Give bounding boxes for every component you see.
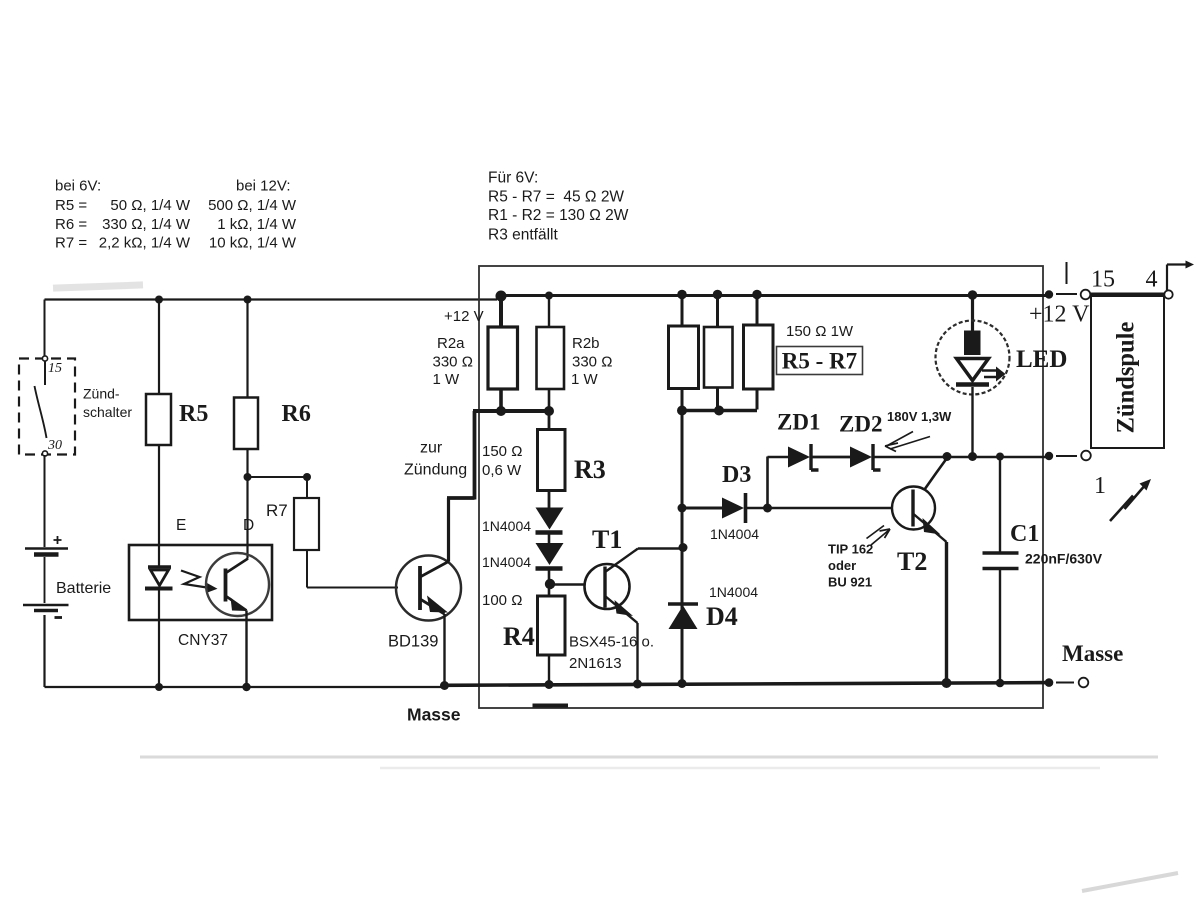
wire R5 to optocoupler LED anode xyxy=(158,445,160,567)
wire R5 branch from top bus xyxy=(158,300,160,395)
wire R6 to node D xyxy=(246,449,248,477)
svg-text:+12 V: +12 V xyxy=(1029,302,1090,328)
node junction A (D2/R4/T1 base) xyxy=(545,579,555,589)
wire D3 cathode to T2 base xyxy=(746,507,893,509)
resistor R3 xyxy=(538,430,566,491)
resistor R5 xyxy=(146,394,171,445)
node junction D-line/ground xyxy=(678,679,687,688)
wire optocoupler LED cathode to ground bus (node E) xyxy=(158,589,160,688)
svg-text:Batterie: Batterie xyxy=(56,580,111,597)
wire bus to R5-R7 bank stubs xyxy=(682,294,757,327)
svg-text:TIP 162: TIP 162 xyxy=(828,542,873,557)
svg-text:R7: R7 xyxy=(266,501,288,520)
resistor R7 xyxy=(294,498,319,550)
node junction T2 collector xyxy=(943,452,952,461)
wire D2 to node A xyxy=(548,570,551,585)
wire node to D3 anode xyxy=(682,507,722,510)
wire T1 collector to node B xyxy=(638,547,683,550)
node junction phototransistor emitter/ground xyxy=(242,683,250,691)
svg-text:1N4004: 1N4004 xyxy=(710,526,759,542)
terminal 4 open circle xyxy=(1164,290,1172,298)
diode D4 1N4004 xyxy=(668,604,698,629)
value label T2 type xyxy=(828,542,873,590)
wire T1 emitter to ground bus xyxy=(636,623,638,684)
svg-text:BSX45-16 o.: BSX45-16 o. xyxy=(569,634,654,651)
svg-text:330 Ω: 330 Ω xyxy=(572,354,612,371)
svg-text:D4: D4 xyxy=(706,602,738,631)
module enclosure box xyxy=(479,266,1043,708)
transistor T1 BSX45-16 xyxy=(585,549,639,624)
transistor T2 TIP162 xyxy=(892,458,947,542)
svg-text:220nF/630V: 220nF/630V xyxy=(1025,551,1103,567)
resistor R6 xyxy=(234,398,258,450)
net label zur Zündung xyxy=(404,440,467,479)
svg-text:R2b: R2b xyxy=(572,335,600,352)
svg-text:500 Ω, 1/4 W: 500 Ω, 1/4 W xyxy=(208,197,297,214)
node junction T2 emitter/ground xyxy=(942,678,952,688)
resistor R6 (power bank) xyxy=(704,327,733,388)
node junction LED top bus xyxy=(968,290,978,300)
svg-text:E: E xyxy=(176,517,186,534)
terminal +12V dash xyxy=(1056,293,1077,295)
wire R4 to ground bus xyxy=(548,655,550,685)
svg-text:2,2 kΩ, 1/4 W: 2,2 kΩ, 1/4 W xyxy=(99,235,191,252)
wire R2a/R2b bottom bus (zur Zündung node) xyxy=(473,409,549,413)
diode D2 1N4004 xyxy=(536,543,564,569)
svg-text:R5 - R7 = 45 Ω 2W: R5 - R7 = 45 Ω 2W xyxy=(488,189,624,206)
node junction T1 emitter/ground xyxy=(633,680,642,689)
wire bank bottom bus xyxy=(682,409,757,413)
svg-text:Zündspule: Zündspule xyxy=(1112,322,1139,434)
node junction C1/ground xyxy=(996,679,1005,688)
svg-text:1N4004: 1N4004 xyxy=(482,518,531,534)
wire T2 emitter to ground bus xyxy=(945,542,948,683)
svg-text:R3: R3 xyxy=(574,455,606,484)
svg-text:1: 1 xyxy=(1094,473,1106,499)
optocoupler light arrow xyxy=(181,571,218,593)
node junction C1 top xyxy=(996,453,1004,461)
node junction E/ground xyxy=(155,683,163,691)
node junction output at box edge xyxy=(1045,452,1053,460)
svg-text:100 Ω: 100 Ω xyxy=(482,592,522,609)
node junction bank stub 3 xyxy=(752,290,762,300)
wire ZD branch riser xyxy=(768,457,789,509)
transistor Q1 BD139 xyxy=(396,556,461,621)
svg-text:0,6 W: 0,6 W xyxy=(482,462,522,479)
node junction BD139 emitter/ground xyxy=(440,681,449,690)
svg-text:R4: R4 xyxy=(503,622,535,651)
node junction bank bottom 1 xyxy=(677,406,687,416)
resistor R4 xyxy=(538,596,566,655)
svg-text:T1: T1 xyxy=(592,525,622,554)
svg-text:180V 1,3W: 180V 1,3W xyxy=(887,409,952,424)
wire bus to R2a xyxy=(499,296,503,327)
zener diode ZD1 xyxy=(788,444,819,470)
svg-text:R7 =: R7 = xyxy=(55,235,87,252)
wire R2b bottom xyxy=(548,389,551,411)
wire BD139 emitter to ground bus xyxy=(443,614,445,686)
svg-text:D: D xyxy=(243,517,254,534)
svg-text:30: 30 xyxy=(47,438,62,453)
svg-text:C1: C1 xyxy=(1010,521,1039,547)
svg-text:LED: LED xyxy=(1016,346,1067,373)
node junction R5/top bus xyxy=(155,296,163,304)
node junction R6/top bus xyxy=(244,296,252,304)
svg-text:4: 4 xyxy=(1146,267,1158,293)
node junction B (T1 collector on D-line) xyxy=(679,543,688,552)
svg-text:1N4004: 1N4004 xyxy=(482,554,531,570)
wire ZD1 to ZD2 xyxy=(811,456,850,459)
terminal coil 1 dash xyxy=(1056,455,1077,457)
optocoupler U1 CNY37 package box xyxy=(129,545,272,620)
svg-text:R3 entfällt: R3 entfällt xyxy=(488,227,558,244)
svg-text:R6: R6 xyxy=(282,401,311,427)
svg-text:R5 - R7: R5 - R7 xyxy=(782,349,857,374)
terminal Masse open circle xyxy=(1079,678,1089,688)
LED indicator xyxy=(936,294,1010,457)
zener diode ZD2 xyxy=(850,444,881,470)
node junction bank stub 2 xyxy=(713,290,723,300)
svg-text:ZD1: ZD1 xyxy=(777,410,820,435)
svg-text:Masse: Masse xyxy=(407,705,461,725)
wire to R3 xyxy=(548,411,551,430)
svg-text:Zünd-: Zünd- xyxy=(83,386,120,402)
annotation arrow to T2 (TIP162) xyxy=(867,526,891,546)
resistor R5 (power bank) xyxy=(669,326,699,389)
node D junction (R6/R7/collector) xyxy=(244,473,252,481)
wire bank bottoms xyxy=(682,388,757,411)
node junction R2a/top bus xyxy=(496,291,507,302)
wire R2a bottom xyxy=(499,389,503,411)
node junction ZD tap xyxy=(763,504,772,513)
value note Für 6V xyxy=(488,170,629,244)
value table bei 6V / bei 12V xyxy=(55,178,297,252)
node junction R2b bottom xyxy=(544,406,554,416)
boxed label R5 - R7 xyxy=(777,347,863,375)
value label R3 150 Ohm 0,6 W xyxy=(482,443,522,479)
wire terminal 4 arrow out xyxy=(1167,261,1194,291)
svg-text:bei 6V:: bei 6V: xyxy=(55,178,101,195)
svg-text:R5 =: R5 = xyxy=(55,197,87,214)
label Zündschalter xyxy=(83,386,132,421)
svg-text:R2a: R2a xyxy=(437,335,465,352)
node junction +12V at box edge xyxy=(1045,290,1053,298)
wire phototransistor emitter to ground bus xyxy=(245,611,247,688)
svg-text:1 W: 1 W xyxy=(433,371,461,388)
svg-text:330 Ω: 330 Ω xyxy=(433,354,473,371)
svg-text:15: 15 xyxy=(1091,267,1115,293)
diode D3 1N4004 xyxy=(722,493,746,523)
wire R7 to BD139 base xyxy=(307,550,398,588)
wire node A to R4 xyxy=(548,585,551,597)
svg-text:D3: D3 xyxy=(722,462,751,488)
wire switch to battery xyxy=(44,455,46,547)
wire ZD2 to output node / coil terminal 1 xyxy=(873,456,1049,459)
wire BD139 collector zur Zündung xyxy=(447,498,450,562)
node junction D3 tap xyxy=(678,504,687,513)
wire ground bus inside box xyxy=(444,683,1049,686)
svg-text:150 Ω: 150 Ω xyxy=(482,443,522,460)
svg-text:50 Ω, 1/4 W: 50 Ω, 1/4 W xyxy=(110,197,190,214)
svg-text:R1 - R2 = 130 Ω 2W: R1 - R2 = 130 Ω 2W xyxy=(488,207,629,224)
wire bank to ground via D4 (vertical line) xyxy=(681,411,684,684)
value label T1 type xyxy=(569,634,654,673)
svg-text:zur: zur xyxy=(420,440,443,457)
terminal +12V open circle xyxy=(1081,290,1091,300)
svg-text:ZD2: ZD2 xyxy=(839,412,882,437)
svg-text:1N4004: 1N4004 xyxy=(709,584,758,600)
high voltage lightning arrow xyxy=(1110,479,1151,521)
svg-text:bei 12V:: bei 12V: xyxy=(236,178,291,195)
switch S1 Zündschalter xyxy=(19,356,75,456)
svg-text:BU 921: BU 921 xyxy=(828,575,872,590)
svg-text:R5: R5 xyxy=(179,401,208,427)
resistor R2a xyxy=(488,327,518,389)
svg-text:2N1613: 2N1613 xyxy=(569,655,622,672)
svg-text:Masse: Masse xyxy=(1062,641,1123,666)
wire battery positive to switch xyxy=(44,300,46,357)
svg-text:BD139: BD139 xyxy=(388,633,438,651)
optocoupler phototransistor xyxy=(206,553,269,616)
terminal Masse dash xyxy=(1056,682,1074,684)
svg-text:15: 15 xyxy=(48,361,62,376)
capacitor C1 220nF/630V xyxy=(983,457,1019,684)
ground symbol Masse under R4 xyxy=(533,704,569,708)
resistor R2b xyxy=(537,327,565,389)
wire node D to phototransistor collector xyxy=(246,477,248,559)
svg-text:10 kΩ, 1/4 W: 10 kΩ, 1/4 W xyxy=(209,235,297,252)
wire +12V bus inside box xyxy=(496,294,1049,297)
svg-text:1 W: 1 W xyxy=(571,371,599,388)
terminal coil 1 open circle xyxy=(1081,451,1091,461)
node junction bank bottom 2 xyxy=(714,406,724,416)
wire bus to R2b xyxy=(548,296,550,328)
wire R6 branch from top bus xyxy=(246,300,248,398)
svg-text:330 Ω, 1/4 W: 330 Ω, 1/4 W xyxy=(102,216,191,233)
node junction R4/ground xyxy=(545,680,554,689)
annotation arrow to ZD2 (180V 1,3W) xyxy=(885,432,930,452)
wire battery negative to ground bus xyxy=(45,615,447,687)
node junction R7 top xyxy=(303,473,311,481)
svg-text:Zündung: Zündung xyxy=(404,462,467,479)
value label R2a xyxy=(433,335,473,388)
tick mark above +12V xyxy=(1066,262,1068,284)
ignition coil Zündspule box xyxy=(1091,294,1164,449)
wire D1 to D2 xyxy=(548,534,551,544)
node junction ground at box edge xyxy=(1045,678,1054,687)
diode D1 1N4004 xyxy=(536,508,564,533)
svg-text:schalter: schalter xyxy=(83,404,132,420)
node junction LED cathode xyxy=(968,452,977,461)
node junction R2a bottom xyxy=(496,406,506,416)
resistor R7 (power bank) xyxy=(744,325,774,389)
svg-text:T2: T2 xyxy=(897,547,927,576)
battery B1 xyxy=(23,536,69,618)
wire node A to T1 base xyxy=(550,583,586,585)
value label R2b xyxy=(571,335,612,388)
svg-text:1 kΩ, 1/4 W: 1 kΩ, 1/4 W xyxy=(217,216,297,233)
node junction bank stub 1 xyxy=(677,290,687,300)
svg-text:oder: oder xyxy=(828,558,856,573)
wire +12V top bus (left, outside box) xyxy=(45,296,498,300)
svg-text:R6 =: R6 = xyxy=(55,216,87,233)
svg-text:150 Ω 1W: 150 Ω 1W xyxy=(786,323,854,340)
optocoupler LED (emitter diode) xyxy=(145,567,173,589)
svg-text:Für 6V:: Für 6V: xyxy=(488,170,538,187)
node junction R2b/top bus xyxy=(545,292,553,300)
wire node D to R7 top xyxy=(248,477,308,498)
svg-text:+12 V: +12 V xyxy=(444,308,484,325)
svg-text:CNY37: CNY37 xyxy=(178,632,228,649)
scan artifact smudge top-left xyxy=(53,281,1178,891)
wire R3 to D1 xyxy=(548,491,551,509)
